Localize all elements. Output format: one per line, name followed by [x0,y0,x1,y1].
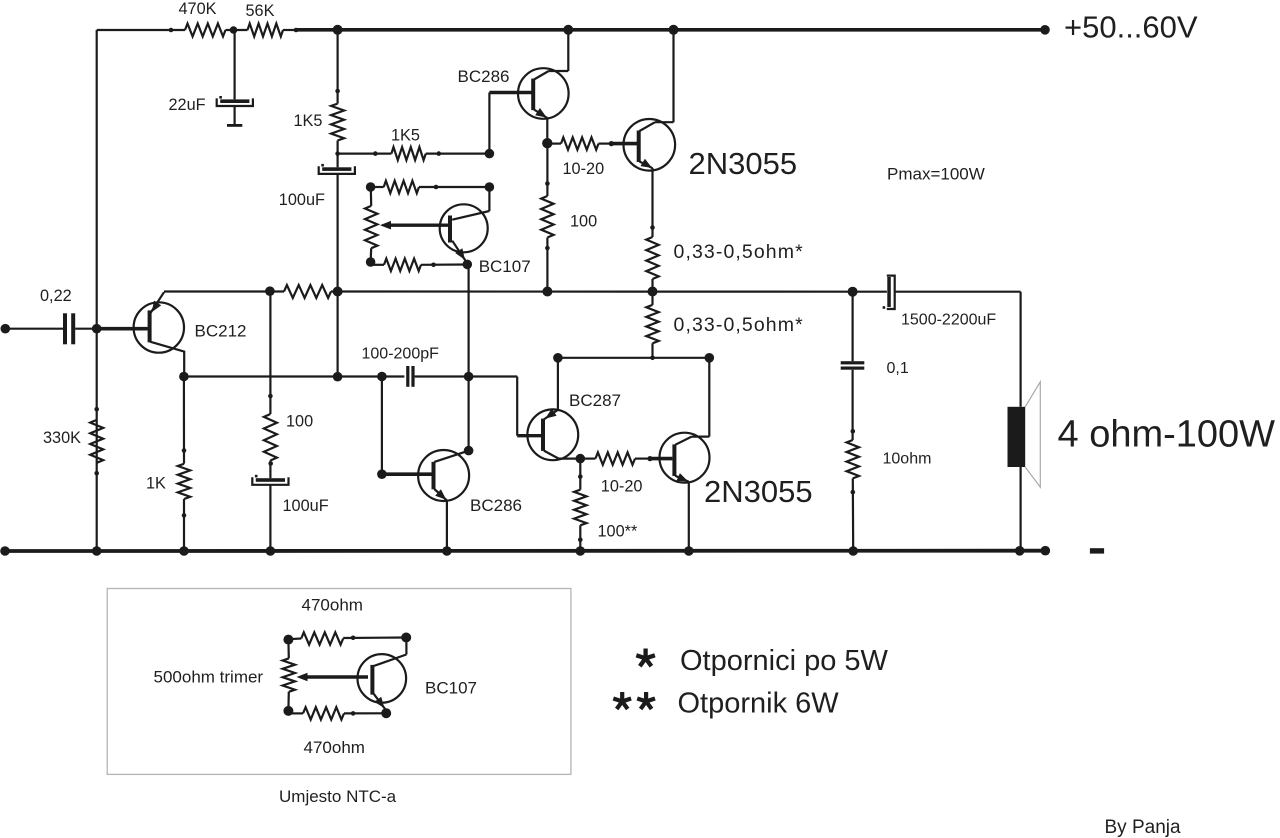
svg-text:470ohm: 470ohm [302,596,363,615]
junction BC107 emitter node [463,260,473,270]
svg-text:100**: 100** [598,523,639,541]
wire line A to speaker corner [895,292,1021,407]
svg-text:1K: 1K [146,475,166,493]
svg-text:BC286: BC286 [470,496,522,515]
svg-text:1500-2200uF: 1500-2200uF [901,312,996,329]
transistor BC107box emitter [374,694,387,713]
junction rail/100uF lower [266,546,276,556]
junction rail/330K [92,546,102,556]
wire top rail thin segment [97,29,185,31]
resistor 1K5 vertical [331,104,344,141]
transistor BC212 collector (bottom lead) [151,342,185,377]
node dot 100u top [545,181,550,186]
label BC286 lower [470,496,522,515]
wire BC286 base horizontal [489,91,531,95]
label 2N3055 upper [689,146,798,181]
svg-text:1K5: 1K5 [391,127,420,145]
node dot 56K right lead [294,28,299,33]
wire 10-20u left lead [547,143,561,145]
svg-text:10-20: 10-20 [563,160,605,178]
svg-text:BC286: BC286 [458,67,510,86]
svg-text:10ohm: 10ohm [883,451,932,468]
wire 10-20l left lead [580,458,595,460]
capacitor 1500-2200uF [883,276,895,309]
wire BC107u emitter down to BC286l collector [468,264,470,450]
junction BC212 collector node [179,372,189,382]
wire 100** top lead [579,459,581,490]
capacitor 22uF [217,96,253,106]
transistor Q BC286 upper circle [518,68,569,119]
resistor 0,33-0,5ohm upper [646,237,658,279]
junction box bottom-left [283,706,293,716]
svg-text:BC212: BC212 [195,322,247,341]
transistor 2N3055l base bar [672,444,676,476]
svg-text:100uF: 100uF [279,191,325,209]
wire 2N3055u collector [640,30,674,131]
svg-text:470ohm: 470ohm [304,738,365,757]
potentiometer 500ohm (upper trimmer) [365,206,377,248]
label 2N3055 lower [704,474,813,509]
svg-text:1K5: 1K5 [294,112,323,130]
legend text Otpornik 6W [678,688,840,720]
wire 1K5h right lead [426,153,490,155]
capacitor 0,22 [63,313,75,344]
resistor 1K5 horizontal [391,147,425,160]
wire 0,1 to 10ohm [851,370,853,440]
wire below-trimmer right lead [421,263,467,265]
svg-text:100uF: 100uF [283,497,329,515]
svg-text:Pmax=100W: Pmax=100W [887,164,985,183]
transistor 2N3055l collector [675,358,709,445]
wire BC107 collector [452,187,489,220]
node dot 470K left lead [169,28,174,33]
wire 10-20l right lead [635,458,650,460]
transistor Q BC287 circle [527,409,578,460]
transistor BC286 emitter [534,108,547,143]
wire drive line [558,357,709,359]
node dot 10-20u right [609,141,614,146]
junction rail/2N3055l emitter [684,546,694,556]
wire 10-20u right lead [599,143,614,145]
wire speaker to bottom rail [1019,467,1021,551]
resistor 100 mid [264,414,277,461]
label BC212 [195,322,247,341]
label BC287 [569,391,621,410]
svg-text:100: 100 [570,213,597,231]
wire BC286l base horizontal [382,472,432,476]
node dot 1K5h left [373,151,378,156]
wire 2N3055l base [650,457,672,461]
label 0,33-0,5ohm* upper [674,241,804,263]
label 1K [146,475,166,493]
wire 0,33l bottom lead [651,343,653,358]
label 0,33-0,5ohm* lower [674,314,804,336]
svg-text:56K: 56K [246,2,275,20]
transistor BC107 base bar [448,216,452,243]
svg-text:BC107: BC107 [425,679,477,698]
label 330K [43,429,81,447]
transistor Q 2N3055 upper circle [624,119,676,171]
svg-text:Otpornici po 5W: Otpornici po 5W [680,645,889,677]
node dot 100u bottom [545,246,550,251]
node dot 100m top [268,394,273,399]
label 4 ohm-100W [1058,413,1276,455]
svg-text:100-200pF: 100-200pF [362,346,440,363]
potentiometer 500ohm trimer (box) [283,658,295,691]
node dot box bottom res [351,711,356,716]
wire 10ohm bottom lead [852,478,855,551]
transistor BC286l emitter [434,489,447,551]
svg-text:22uF: 22uF [169,96,206,114]
wire top rail thick +50...60V [296,28,1045,32]
wire 0,33l top lead [651,292,653,305]
wire 1K5 top lead [337,30,339,104]
label BC107 box [425,679,477,698]
label Pmax=100W [887,164,985,183]
svg-text:2N3055: 2N3055 [704,474,813,509]
node dot 100m bottom [268,461,273,466]
wire node line A left [164,290,284,292]
junction BC286l base node [377,469,387,479]
svg-text:4 ohm-100W: 4 ohm-100W [1058,413,1276,455]
resistor 1K [178,464,190,499]
wire 0,33u bottom lead [651,279,653,292]
junction box top-left [283,635,293,645]
wiper arrow box trimmer [297,673,369,682]
svg-text:10-20: 10-20 [601,478,643,496]
label 10-20 lower [601,478,643,496]
node dot 2N3055u emitter lead [650,225,655,230]
wire box trimmer top lead [287,640,290,659]
junction lineB/BC286l base [377,372,387,382]
transistor BC286l collector [434,451,468,462]
junction rail/100** [576,546,586,556]
svg-text:0,1: 0,1 [887,360,909,377]
wire 100u bottom lead [546,238,548,292]
junction 1K5/1K5h/100uF [335,151,340,156]
transistor BC107box base bar [370,665,374,695]
label By Panja [1105,817,1181,838]
svg-text:Umjesto NTC-a: Umjesto NTC-a [279,787,397,806]
resistor 0,33-0,5ohm lower [646,305,658,343]
junction lineA/100-branch [265,286,275,296]
junction drive line / 2N3055l collector [705,353,715,363]
wire 1K5h left lead [338,153,392,155]
wire box trimmer bottom lead [287,692,290,711]
junction 470K/56K/22uF [230,26,238,34]
node dot above-trimmer right [434,185,439,190]
label 1K5 horizontal [391,127,420,145]
wire 22uF top lead [234,30,236,99]
junction lineA/zobel branch [848,287,858,297]
junction box top-right [401,633,411,643]
wire 22uF bottom lead [234,106,236,124]
svg-text:BC287: BC287 [569,391,621,410]
node dot 330K top [94,407,99,412]
wire BC286 base vertical [488,93,490,154]
wire 100m to 100uF [269,461,271,479]
wire 1K top lead [183,377,185,464]
wire trimmer bottom lead [370,248,373,262]
legend asterisk 6W b [637,692,655,709]
wiper arrow upper trimmer [380,221,449,230]
wire box top res left lead [288,637,301,640]
transistor BC287 collector lead [544,409,558,420]
terminal dot +50...60V [1040,25,1050,35]
label 0,1 [887,360,909,377]
svg-text:By Panja: By Panja [1105,817,1181,838]
wire above-trimmer left lead [371,186,384,188]
junction BC287 emitter node [576,454,586,464]
junction trimmer bottom [366,257,376,267]
label 22uF [169,96,206,114]
terminal dot bottom-left [0,546,10,556]
transistor BC287 base bar [541,419,545,451]
resistor 10-20 upper [561,137,599,149]
node dot 100** top [578,474,583,479]
wire 56K right lead [283,29,298,31]
node dot 330K bottom [94,471,99,476]
node dot 1K top [182,448,187,453]
label 56K [246,2,275,20]
wire 100-branch top lead [269,292,271,415]
wire BC287 collector vertical [557,358,559,410]
wire trimmer top lead [370,187,373,206]
wire BC286 collector [534,30,568,80]
label 500ohm trimer [154,668,264,687]
junction lineB/BC107u emitter [464,372,474,382]
junction BC286 emitter / 10-20 / 100 [542,138,552,148]
legend asterisk 5W [636,649,655,667]
wire input to 0,22 [5,328,63,330]
transistor Q BC107 circle [440,204,488,252]
junction above-trimmer/BC107 collector [485,182,495,192]
transistor BC286 base bar [531,79,535,111]
wire BC287 base [517,434,541,437]
resistor 470ohm bottom [303,707,344,719]
svg-text:330K: 330K [43,429,81,447]
junction base-feed BC286 [485,149,495,159]
resistor 470ohm top [301,632,343,644]
capacitor 100-200pF [406,366,414,387]
resistor 100 upper [541,196,553,238]
wire node line B [184,375,405,377]
wire BC212 base [97,327,148,331]
resistor 470K [185,24,226,37]
speaker cone [1025,382,1040,487]
wire box bottom res left lead [288,711,303,714]
wire node line B right [415,377,518,436]
transistor BC212 base bar [148,310,152,342]
capacitor 0,1 [841,361,865,370]
terminal dot bottom-right [1041,546,1051,556]
transistor 2N3055u emitter [640,159,653,237]
wire left vertical x=96.7 [96,30,98,551]
label 470ohm top [302,596,363,615]
label 100 upper [570,213,597,231]
resistor below trimmer [384,259,421,271]
junction input node [92,324,102,334]
node dot below-trimmer right [431,263,436,268]
wire 1K bottom lead [183,499,185,551]
resistor 10ohm [847,440,859,478]
resistor 56K [248,24,284,37]
svg-text:470K: 470K [179,0,217,18]
transistor Q BC107 box circle [358,654,407,703]
transistor Q BC212 circle [134,302,184,352]
label 100 mid [286,413,313,431]
junction trimmer top [366,182,376,192]
label BC107 upper [479,257,531,276]
legend text Otpornici po 5W [680,645,889,677]
label minus terminal [1090,548,1104,553]
wire 1K5 to 100uF [337,141,339,168]
label 470K [179,0,217,18]
junction BC286l collector node [464,446,474,456]
label 1K5 vertical [294,112,323,130]
node dot 10ohm bottom [851,490,856,495]
junction box BC107 emitter [381,708,391,718]
junction rail/BC286 collector [563,25,573,35]
junction rail/speaker [1015,546,1025,556]
capacitor 100uF upper [319,164,355,174]
wire bottom rail [5,549,1045,553]
capacitor 100uF lower [252,475,288,485]
label +50...60V [1064,10,1198,45]
svg-text:BC107: BC107 [479,257,531,276]
inset box frame [107,589,571,775]
wire 100uF2 bottom lead [269,485,271,551]
wire BC286l base vertical [381,377,383,475]
junction BC287 collector / drive line [553,353,563,363]
label 100** [598,523,639,541]
label 10ohm [883,451,932,468]
terminal input dot [1,324,11,334]
label 100uF lower [283,497,329,515]
wire 100uF to node line [337,175,339,292]
node dot 1K bottom [182,513,187,518]
label 100uF upper [279,191,325,209]
wire 2N3055u base [611,142,637,146]
junction rail/2N3055u collector [669,25,679,35]
label 10-20 upper [563,160,605,178]
svg-text:0,33-0,5ohm*: 0,33-0,5ohm* [674,314,804,336]
junction top rail / 1K5 [333,25,343,35]
node dot 10ohm top [851,429,856,434]
label BC286 upper [458,67,510,86]
junction rail/1K [179,546,189,556]
label 470ohm bottom [304,738,365,757]
wire 100u top lead [546,144,548,196]
resistor above trimmer [384,181,419,193]
svg-text:Otpornik 6W: Otpornik 6W [678,688,840,720]
transistor 2N3055u base bar [637,131,641,163]
junction lineB/1K5-chain vertical [333,372,343,382]
svg-text:2N3055: 2N3055 [689,146,798,181]
wire 470K-56K link [226,29,248,31]
junction rail/10ohm [848,546,858,556]
junction lineA/1K5 chain [333,287,343,297]
transistor BC287 emitter [544,451,580,459]
speaker body [1008,407,1026,467]
junction lineA/0,33 resistors [648,287,658,297]
wire box top res right lead [343,636,406,639]
transistor BC107 emitter [452,241,467,263]
wire vertical lineA-lineB x=337.6 [337,292,339,377]
svg-text:0,22: 0,22 [40,287,72,305]
svg-text:+50...60V: +50...60V [1064,10,1198,45]
node dot box top res [351,636,356,641]
wire node line A mid [331,290,887,292]
wire 0,22 to base node [75,328,148,330]
wire box bottom res right lead [344,712,386,714]
node dot 10-20l right [647,456,652,461]
legend asterisk 6W a [613,692,631,709]
label Umjesto NTC-a [279,787,397,806]
junction rail/BC286l emitter [442,546,452,556]
junction lineA/100u bottom [542,287,552,297]
wire above-trimmer right lead [419,186,489,188]
wire below-trimmer left lead [371,262,384,265]
terminal bar 22uF negative end [227,124,242,127]
node dot 1K5 top [335,89,340,94]
transistor Q BC286 lower circle [418,450,469,501]
svg-text:500ohm trimer: 500ohm trimer [154,668,264,687]
transistor BC212 emitter (top lead) [151,292,165,313]
transistor 2N3055l emitter [675,473,689,551]
node dot 1K5h right [437,151,442,156]
transistor Q 2N3055 lower circle [660,433,710,483]
wire 0,1 top lead [851,292,853,362]
resistor 100** [574,490,586,526]
node dot 100** bottom [578,537,583,542]
svg-text:0,33-0,5ohm*: 0,33-0,5ohm* [674,241,804,263]
node dot 0,33l bottom [650,356,655,361]
label 0,22 [40,287,72,305]
resistor 10-20 lower [595,452,635,464]
transistor BC286l base bar [432,462,436,490]
svg-text:100: 100 [286,413,313,431]
resistor 330K [90,420,103,463]
label 1500-2200uF [901,312,996,329]
wire BC107box collector [374,638,407,667]
label 100-200pF [362,346,440,363]
wire 100** bottom lead [579,525,581,551]
resistor bootstrap on line A [284,285,331,298]
